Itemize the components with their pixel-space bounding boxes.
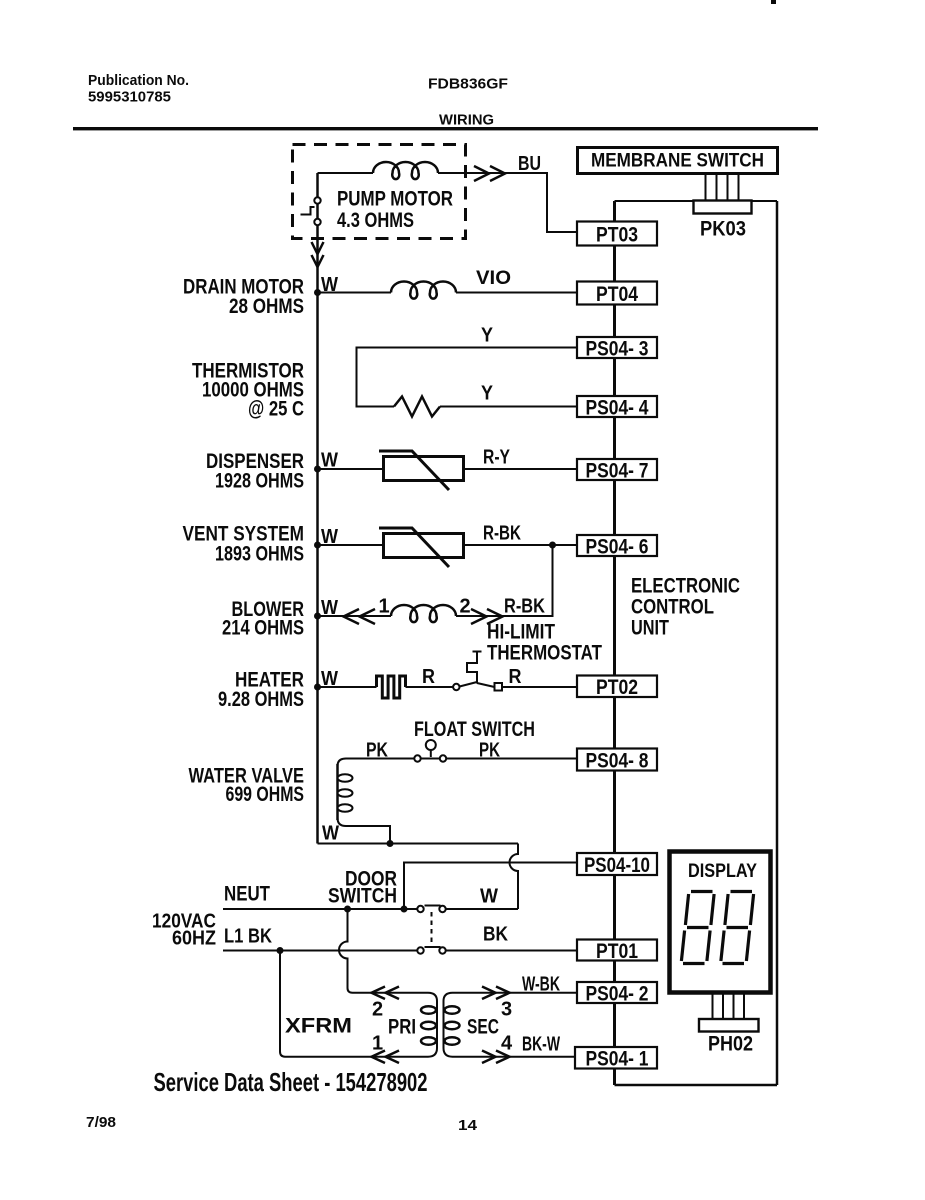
node junction vent/blower R-BK	[549, 542, 556, 549]
svg-text:XFRM: XFRM	[285, 1015, 352, 1038]
wire: NEUT junction down to transformer primary pin2 with hop over L1	[339, 909, 428, 993]
svg-text:Service Data Sheet - 154278902: Service Data Sheet - 154278902	[154, 1067, 428, 1097]
svg-text:PS04-10: PS04-10	[584, 854, 650, 877]
wire: PK03 to ECU bus	[615, 200, 695, 202]
node W junction blower	[314, 613, 321, 620]
svg-text:BU: BU	[518, 153, 541, 175]
svg-text:PT02: PT02	[596, 676, 638, 699]
svg-text:Y: Y	[481, 325, 494, 347]
connector PS04-4	[577, 396, 657, 419]
svg-text:PS04- 6: PS04- 6	[586, 535, 649, 558]
transformer XFRM secondary winding	[444, 993, 460, 1057]
svg-text:PS04- 4: PS04- 4	[586, 396, 649, 419]
component label: dispenser	[206, 450, 304, 493]
connector PS04-10	[577, 853, 657, 877]
flow arrows pin4 pointing right	[482, 1051, 510, 1064]
svg-text:SWITCH: SWITCH	[328, 885, 397, 908]
svg-text:PS04- 3: PS04- 3	[586, 337, 649, 360]
flow arrows pin3 pointing right	[482, 987, 510, 1000]
pump motor centrifugal switch contacts	[301, 197, 321, 225]
svg-text:2: 2	[372, 999, 383, 1021]
node W junction drain motor	[314, 289, 321, 296]
svg-text:PRI: PRI	[388, 1016, 416, 1039]
electronic control unit label	[631, 574, 740, 640]
wire: heater row left	[318, 686, 377, 688]
svg-text:4.3 OHMS: 4.3 OHMS	[337, 208, 414, 232]
connector PS04-2	[577, 982, 657, 1005]
float switch contacts	[414, 740, 446, 762]
wire: blower row	[318, 545, 553, 616]
svg-text:WIRING: WIRING	[439, 113, 494, 129]
header horizontal rule	[73, 127, 818, 130]
door switch pole 1 contacts	[417, 906, 445, 913]
connector PT03	[577, 222, 657, 247]
wire: ECU right edge vertical	[776, 201, 779, 1085]
svg-text:5995310785: 5995310785	[88, 90, 171, 106]
svg-text:Publication No.: Publication No.	[88, 73, 189, 89]
wire: thermostat to PT02	[502, 686, 577, 688]
svg-text:3: 3	[501, 999, 512, 1021]
wire: water valve bottom to W bus wire	[338, 818, 391, 844]
wire: drain motor row	[318, 292, 578, 294]
svg-text:R: R	[509, 666, 522, 688]
component label: heater	[218, 669, 304, 712]
wire: NEUT wire	[223, 908, 417, 910]
svg-text:W: W	[322, 823, 339, 845]
wire: heater to thermostat	[406, 686, 454, 688]
svg-text:W: W	[480, 886, 498, 908]
connector PK03 pins	[706, 174, 739, 200]
svg-text:UNIT: UNIT	[631, 616, 669, 640]
node junction NEUT/PS04-10	[401, 906, 408, 913]
node W junction dispenser	[314, 466, 321, 473]
svg-text:Y: Y	[481, 383, 494, 405]
svg-text:FLOAT SWITCH: FLOAT SWITCH	[414, 718, 535, 741]
wire flow arrows on BU wire	[474, 166, 505, 181]
wire: left W bus vertical	[316, 173, 319, 844]
wire: PS04-10 wire	[404, 863, 577, 910]
wire: dispenser row	[318, 468, 578, 470]
transformer XFRM primary winding	[421, 993, 437, 1057]
dispenser wax motor element	[379, 451, 464, 490]
door switch mechanical link (dashed)	[431, 912, 433, 947]
svg-text:W-BK: W-BK	[522, 974, 560, 996]
wire: ECU bottom edge	[615, 1084, 778, 1087]
svg-text:PH02: PH02	[708, 1033, 753, 1056]
svg-text:BK: BK	[483, 924, 508, 946]
door switch label	[328, 868, 397, 908]
svg-text:PS04- 2: PS04- 2	[586, 982, 649, 1005]
component label: drain motor	[183, 276, 304, 319]
svg-text:4: 4	[501, 1033, 513, 1055]
connector PT04	[577, 282, 657, 306]
connector PS04-8	[577, 749, 657, 773]
vent system wax motor element	[379, 528, 464, 567]
svg-text:PT01: PT01	[596, 940, 638, 963]
svg-text:L1 BK: L1 BK	[224, 926, 272, 948]
svg-text:PK: PK	[479, 740, 500, 762]
svg-text:699 OHMS: 699 OHMS	[226, 783, 305, 806]
svg-text:MEMBRANE SWITCH: MEMBRANE SWITCH	[591, 151, 764, 172]
page corner tick mark	[771, 0, 776, 4]
svg-text:60HZ: 60HZ	[172, 928, 216, 950]
svg-text:PS04- 1: PS04- 1	[586, 1048, 649, 1071]
pump motor label PUMP MOTOR 4.3 OHMS	[337, 187, 453, 233]
svg-text:28 OHMS: 28 OHMS	[229, 295, 304, 318]
node W junction heater	[314, 684, 321, 691]
wire: secondary pin3 W-BK to PS04-2	[453, 992, 578, 994]
svg-text:PT03: PT03	[596, 223, 638, 246]
node W junction vent system	[314, 542, 321, 549]
svg-text:DISPLAY: DISPLAY	[688, 860, 757, 882]
wire: secondary pin4 BK-W to PS04-1	[453, 1056, 578, 1058]
svg-text:2: 2	[460, 596, 471, 618]
connector PH02 housing	[699, 1019, 759, 1032]
resistor: thermistor element	[394, 397, 440, 417]
door switch pole 2 contacts	[417, 947, 445, 954]
connector PS04-1	[575, 1047, 657, 1071]
wire: BK wire to PT01	[446, 950, 577, 952]
connector PS04-7	[577, 459, 657, 482]
svg-text:PS04- 7: PS04- 7	[586, 459, 649, 482]
svg-text:9.28 OHMS: 9.28 OHMS	[218, 688, 304, 711]
svg-text:PT04: PT04	[596, 283, 638, 306]
thermostat label HI-LIMIT THERMOSTAT	[487, 621, 602, 665]
connector PH02 pins	[713, 993, 745, 1019]
svg-text:14: 14	[458, 1117, 478, 1134]
svg-text:R-BK: R-BK	[483, 523, 521, 545]
svg-text:1: 1	[372, 1033, 383, 1055]
svg-text:THERMOSTAT: THERMOSTAT	[487, 642, 602, 665]
svg-text:HI-LIMIT: HI-LIMIT	[487, 621, 555, 644]
supply label 120VAC 60HZ	[152, 911, 216, 950]
wire: thermistor upper Y wire	[357, 348, 578, 407]
svg-text:PS04- 8: PS04- 8	[586, 749, 649, 772]
hi-limit thermostat contact and element	[453, 652, 502, 691]
component label: water valve	[189, 765, 305, 807]
wire: ECU bus vertical	[613, 201, 616, 1085]
wire: PK03 to right ECU edge	[751, 200, 777, 202]
flow arrows pointing right on blower wire	[471, 609, 503, 624]
svg-text:214 OHMS: 214 OHMS	[222, 617, 304, 640]
seven segment digit 2	[721, 892, 754, 964]
svg-text:R-Y: R-Y	[483, 447, 511, 469]
inductor: blower motor winding	[391, 605, 456, 622]
node junction water valve / W wire	[387, 840, 394, 847]
node junction L1/transformer	[277, 947, 284, 954]
wire: W wire down to door switch with hop over PS04-10 wire	[510, 844, 519, 910]
svg-text:1893 OHMS: 1893 OHMS	[215, 543, 304, 566]
svg-text:R-BK: R-BK	[504, 596, 545, 618]
svg-text:VIO: VIO	[476, 268, 511, 289]
component label: vent system	[183, 523, 305, 566]
connector PS04-3	[577, 337, 657, 360]
pump motor dashed enclosure	[293, 145, 466, 239]
wire: vent system row	[318, 544, 578, 546]
inductor: pump motor winding	[373, 162, 438, 179]
svg-text:1: 1	[379, 596, 390, 618]
connector PS04-6	[577, 535, 657, 558]
wire: thermistor lower Y wire	[440, 406, 577, 408]
svg-text:FDB836GF: FDB836GF	[428, 77, 508, 93]
connector PK03 housing	[694, 201, 752, 214]
connector PT02	[577, 676, 657, 700]
wire: L1 BK wire	[223, 950, 417, 952]
node junction NEUT/transformer	[344, 906, 351, 913]
flow arrows pointing left on blower wire	[344, 609, 376, 624]
component label: thermistor	[192, 360, 304, 421]
wire: water valve PK wire to PS04-8	[338, 759, 578, 767]
wire: pump motor internal to coil	[318, 172, 374, 174]
svg-text:BK-W: BK-W	[522, 1034, 560, 1056]
svg-text:R: R	[422, 666, 435, 688]
component label: blower	[222, 598, 304, 640]
wire: BU wire from pump coil to PT03	[438, 173, 577, 232]
svg-text:PUMP MOTOR: PUMP MOTOR	[337, 187, 453, 211]
connector PT01	[577, 940, 657, 963]
MEMBRANE SWITCH block	[578, 148, 778, 174]
svg-text:7/98: 7/98	[86, 1114, 116, 1131]
svg-text:SEC: SEC	[467, 1016, 499, 1039]
svg-text:NEUT: NEUT	[224, 883, 270, 906]
flow arrows pin1 pointing left	[372, 1051, 400, 1064]
heater element	[377, 676, 406, 698]
svg-text:PK: PK	[366, 740, 388, 762]
flow arrows pointing down on pump drain line	[312, 242, 324, 267]
DISPLAY module box	[670, 852, 771, 993]
inductor: water valve solenoid winding	[338, 764, 353, 820]
wire: L1 junction down to transformer primary pin1	[280, 951, 428, 1057]
svg-text:@ 25 C: @ 25 C	[248, 398, 304, 421]
svg-text:PK03: PK03	[700, 218, 746, 241]
wire: door switch pole1 to W riser	[446, 908, 518, 910]
svg-text:1928 OHMS: 1928 OHMS	[215, 470, 304, 493]
inductor: drain motor winding	[391, 282, 456, 299]
wire: W bus bottom horizontal	[318, 843, 519, 845]
flow arrows pin2 pointing left	[372, 987, 400, 1000]
seven segment digit 1	[681, 892, 714, 964]
